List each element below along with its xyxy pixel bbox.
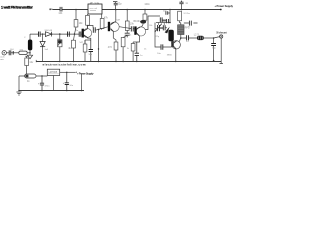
node ground x139.6 — [136, 61, 137, 62]
node battery-ground — [18, 90, 19, 91]
wire PSU rail right up — [81, 74, 83, 91]
microphone MIC1 — [2, 51, 9, 55]
wire R11 to ground — [122, 47, 124, 61]
node cap2-ground — [66, 90, 67, 91]
resistor R7 (Q2 emitter) — [114, 42, 118, 61]
wire C17 to ground — [213, 46, 215, 61]
capacitor C13 (upper, left of x170) — [166, 11, 170, 15]
svg-text:4k7: 4k7 — [68, 47, 73, 50]
resistor R2b (x74.5 lower) — [72, 40, 76, 48]
transistor Q1 — [82, 26, 92, 39]
wire output y38 — [181, 37, 220, 38]
resistor R1 (horizontal capsule) — [19, 51, 30, 54]
wire C6 to base — [80, 33, 83, 35]
trimmer capacitor VC2 — [160, 25, 168, 30]
svg-text:3866: 3866 — [167, 54, 173, 56]
transistor Q4 dark body — [168, 30, 180, 61]
node ground x59.8 — [59, 61, 60, 62]
node cap1-ground — [41, 90, 42, 91]
capacitor C12 (left of x170) — [163, 19, 169, 23]
capacitor C15 (horizontal y23) — [184, 21, 198, 26]
node y34 R2 — [74, 33, 76, 35]
svg-text:+ Power Supply: + Power Supply — [214, 4, 233, 8]
resistor R3 (under can left) — [86, 14, 90, 29]
zener D2 — [40, 34, 45, 61]
capacitor C4 — [93, 27, 95, 32]
capacitor C14 above rail — [179, 1, 183, 10]
svg-text:BF494: BF494 — [134, 20, 142, 23]
wire battery left to ground — [18, 76, 20, 91]
svg-text:L2 7t: L2 7t — [194, 34, 200, 37]
node ground x96.8 — [98, 61, 99, 62]
PSU resistor Rp — [25, 58, 29, 66]
capacitor C1 in rail — [60, 7, 62, 12]
trimmer VC2 arrow head — [165, 27, 170, 34]
svg-text:22p: 22p — [118, 3, 123, 6]
arrow before bottom label — [75, 72, 77, 74]
wire R10 to RFC — [180, 21, 181, 25]
wire top rail left — [53, 9, 89, 11]
capacitor C7 under R6 — [125, 30, 130, 37]
svg-text:1N4148: 1N4148 — [44, 30, 52, 32]
ground rail left tick — [35, 60, 37, 62]
node Q2 base divider — [98, 29, 100, 31]
node output junction — [213, 37, 215, 39]
wire regulator mid pin — [53, 76, 55, 91]
wire top rail mid — [102, 9, 221, 11]
wire mid horizontal y34 — [30, 33, 79, 35]
svg-text:50 ohm ant: 50 ohm ant — [216, 32, 227, 35]
node rail-B — [115, 9, 117, 11]
wire antenna to ground — [220, 38, 222, 63]
wire x96.8 down to ground — [98, 30, 100, 62]
capacitor C11 (y47) — [161, 44, 163, 49]
node PSU rail right — [81, 90, 82, 91]
capacitor C9 (Q1 emitter bypass) — [89, 40, 93, 61]
capacitor Cp2 output — [65, 72, 69, 90]
svg-text:104: 104 — [58, 12, 63, 15]
svg-text:3.3 2w: 3.3 2w — [183, 13, 190, 15]
ground mic — [27, 53, 32, 59]
wire cluster lower — [155, 23, 163, 34]
wire RFC to collector node — [180, 35, 182, 39]
resistor R5 (Q1 emitter) — [83, 38, 91, 61]
resistor R8 — [143, 14, 147, 20]
capacitor C8 (Q2 to Q3) — [131, 26, 134, 31]
capacitor C3 (series y34) — [39, 32, 41, 37]
capacitor Cp1 input — [40, 76, 44, 91]
capacitor C16 (series output) — [187, 35, 189, 40]
node rail-A — [75, 9, 77, 11]
inductor L2 (dark coil) — [197, 36, 204, 40]
PSU bottom rail — [19, 90, 84, 92]
resistor R6 — [125, 21, 129, 30]
capacitor C5 (series y34 right) — [68, 32, 70, 37]
resistor R10 (above RFC) — [178, 11, 182, 21]
pot VR1 — [58, 34, 62, 61]
node x96.8 mid — [98, 48, 99, 49]
node rail-C — [126, 9, 128, 11]
node y34 pot — [59, 33, 61, 35]
wire Rp to battery — [26, 66, 28, 75]
capacitor C12b (top path) — [160, 17, 166, 22]
capacitor C-mic — [9, 50, 19, 55]
node ground x113.3 — [115, 61, 116, 62]
wire down from output junction — [213, 38, 215, 43]
PSU input plug — [25, 56, 28, 58]
node rail-D — [144, 9, 146, 11]
svg-text:osc coil: osc coil — [90, 8, 98, 10]
wire rail down x170 — [169, 9, 171, 22]
wire trimmer cluster top — [156, 22, 170, 24]
battery/diode element — [19, 74, 47, 78]
node Cp1 top — [41, 75, 42, 76]
resistor R11 — [121, 38, 125, 47]
node ground x176 — [175, 61, 176, 62]
antenna ground tick — [220, 63, 223, 65]
node D2 top — [42, 33, 43, 34]
resistor R9 (Q3 emitter) — [131, 36, 139, 61]
node C17 ground — [213, 60, 215, 62]
svg-text:LM7805: LM7805 — [49, 71, 58, 74]
capacitor C6 (into Q1 base) — [65, 32, 81, 37]
oscillator can T1 — [88, 3, 102, 14]
antenna terminal — [220, 35, 223, 38]
svg-text:1 watt FM transmitter: 1 watt FM transmitter — [1, 6, 33, 10]
node rail-F — [181, 9, 183, 11]
node cluster top — [169, 22, 171, 24]
capacitor C17 — [211, 44, 216, 46]
node mic ground — [29, 52, 30, 53]
ground symbol PSU — [16, 92, 21, 95]
transistor Q3 — [134, 16, 160, 36]
wire VC1 top link — [159, 23, 165, 26]
node output cap — [66, 72, 67, 73]
ground rail — [36, 61, 221, 63]
ferrite bead L1 — [140, 20, 146, 24]
capacitor C10 (Q3 emitter bypass) — [135, 42, 139, 61]
node collector Q4 — [180, 37, 182, 39]
trimmer capacitor VC1 — [155, 24, 162, 32]
regulator box U2 — [47, 69, 59, 75]
wire y47 (Q4 emitter path) — [155, 33, 171, 47]
wire y29 Q1-collector to Q2 base — [87, 26, 107, 31]
resistor R4 (under can right) — [100, 14, 104, 30]
svg-text:470: 470 — [108, 46, 113, 49]
svg-text:470u: 470u — [45, 86, 51, 88]
wire regulator output — [60, 71, 75, 73]
inductor RFC L3 (shaded cylinder) — [178, 25, 184, 35]
wire rail to R6 — [126, 9, 128, 21]
input terminal — [50, 9, 53, 11]
svg-text:+ Power Supply: + Power Supply — [77, 72, 94, 76]
svg-text:electronicsinfoline.com: electronicsinfoline.com — [43, 63, 86, 67]
svg-text:T1 osc: T1 osc — [91, 2, 99, 5]
svg-text:100n: 100n — [144, 3, 150, 6]
electrolytic dark blob — [28, 34, 32, 53]
node rail-E — [169, 9, 171, 11]
transistor Q2 — [108, 9, 131, 42]
wire rail to R8 — [144, 9, 146, 14]
diode D1 — [45, 32, 53, 37]
node ground x72.6 — [73, 61, 74, 62]
node rail end — [220, 9, 222, 11]
capacitor C2 (trimmer to rail at x116) — [113, 2, 118, 10]
node ground x123.1 — [122, 61, 123, 62]
resistor R2a (x74.5 upper) — [74, 9, 78, 61]
wire C7 to R11 — [123, 35, 127, 37]
